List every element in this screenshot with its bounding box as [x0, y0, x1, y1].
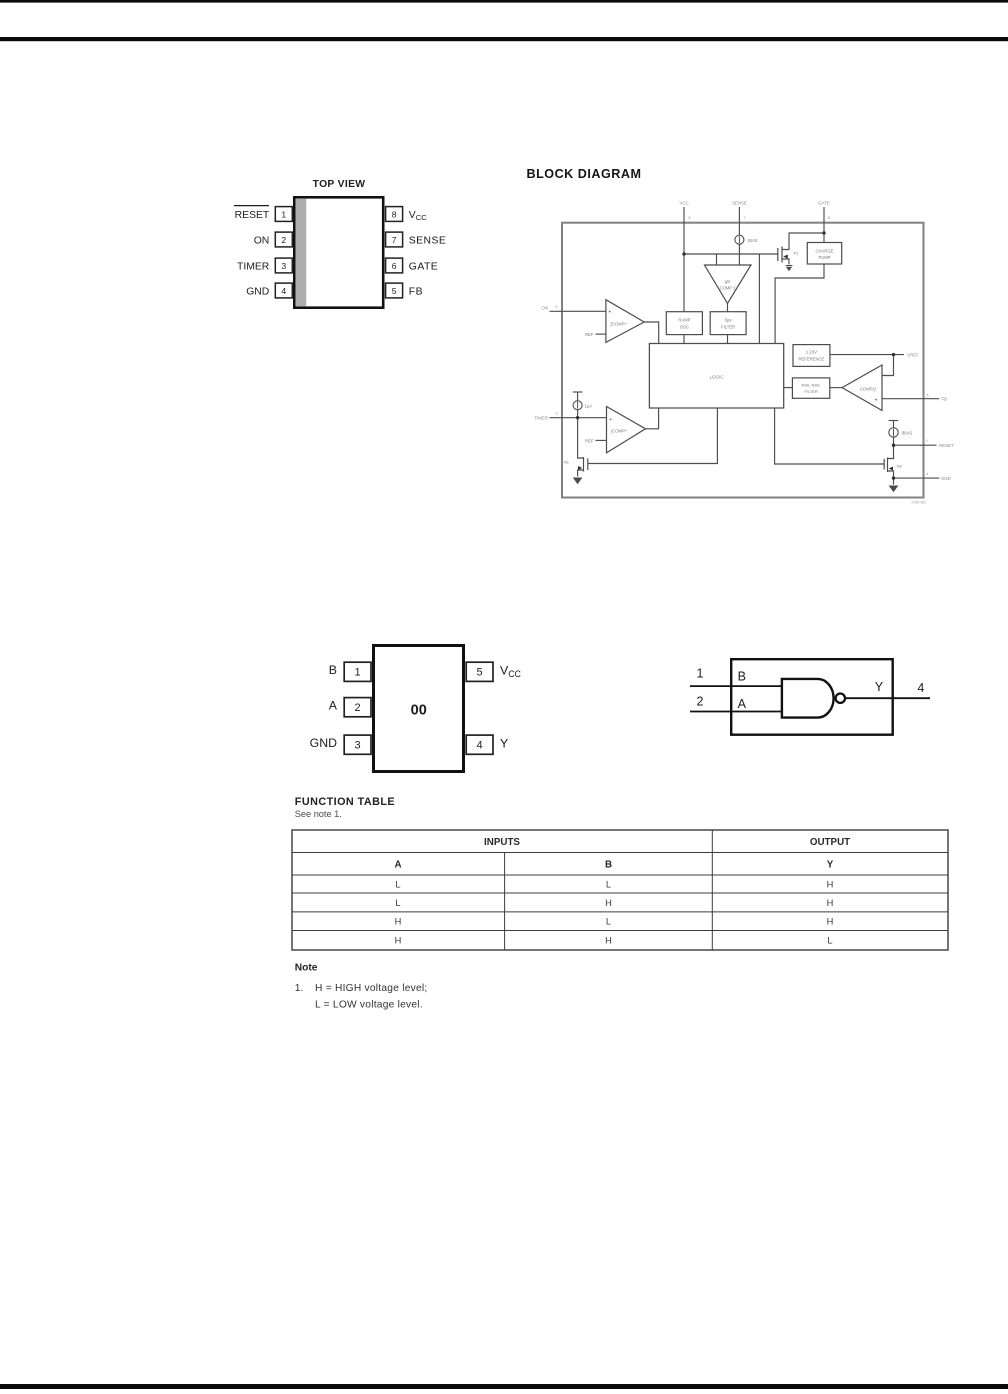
wire ref out [830, 354, 904, 356]
svg-text:CHARGE: CHARGE [816, 248, 834, 253]
op-amp COMPB (lower left) [607, 407, 646, 453]
wire comp2 left input [716, 254, 718, 265]
svg-text:OUTPUT: OUTPUT [810, 837, 850, 848]
pin 3 box [275, 258, 292, 273]
svg-text:2: 2 [697, 695, 704, 709]
junction node vref [892, 353, 895, 356]
input wire 2 [690, 711, 782, 713]
svg-text:V REF: V REF [907, 352, 919, 357]
svg-text:REF: REF [585, 438, 594, 443]
svg-text:5: 5 [927, 394, 929, 398]
svg-text:1μA: 1μA [585, 403, 593, 408]
svg-text:TIMER: TIMER [534, 416, 548, 421]
wire vref node down to compC [882, 355, 894, 376]
symbol boundary box [731, 659, 893, 735]
svg-text:1: 1 [355, 667, 361, 679]
wire filter to logic [727, 335, 729, 344]
outer boundary box [562, 223, 924, 498]
svg-text:N1: N1 [564, 460, 570, 465]
pin 3 box [344, 735, 371, 754]
op-amp COMPA (upper left) [606, 300, 644, 343]
svg-text:ON: ON [541, 306, 548, 311]
wire Q2 source [888, 471, 894, 485]
svg-text:REFERENCE: REFERENCE [798, 356, 824, 361]
pin VCC top wire [683, 207, 685, 312]
svg-text:P1: P1 [794, 251, 800, 256]
svg-text:ʃCOMP+: ʃCOMP+ [610, 322, 628, 327]
svg-text:H: H [827, 898, 834, 908]
svg-text:H: H [395, 936, 402, 946]
reference box [793, 345, 830, 367]
svg-text:6: 6 [392, 261, 397, 271]
top rule 1 [0, 0, 1008, 3]
pin GATE top wire [823, 207, 825, 243]
svg-text:GATE: GATE [409, 261, 438, 272]
svg-text:6: 6 [828, 216, 830, 220]
svg-text:H: H [605, 898, 612, 908]
svg-text:1.23V: 1.23V [806, 350, 817, 355]
wire cs3 to node [893, 437, 895, 445]
IC body U1 [294, 197, 383, 307]
svg-text:B: B [738, 669, 746, 683]
pin 4 box [275, 283, 292, 298]
svg-text:REF: REF [585, 332, 594, 337]
svg-text:GND: GND [310, 736, 337, 750]
junction node TIMER [576, 416, 579, 419]
wire ON pin input [550, 310, 606, 312]
filter box [710, 312, 746, 335]
svg-text:VСС: VСС [679, 201, 688, 206]
svg-text:IBIAS: IBIAS [902, 430, 913, 435]
wire Q2 drain [888, 445, 894, 458]
svg-text:PUMP: PUMP [818, 255, 830, 260]
pin 6 box [386, 258, 403, 273]
pin 2 box [275, 232, 292, 247]
wire Q1 gate from logic [588, 408, 718, 464]
svg-text:Y: Y [827, 860, 834, 871]
wire M1 source to ground [782, 259, 789, 265]
junction node GND [892, 476, 895, 479]
pin 5 box [466, 662, 493, 681]
svg-text:5μs: 5μs [725, 318, 732, 323]
table grid [292, 830, 948, 950]
svg-text:GND: GND [941, 476, 951, 481]
svg-text:3: 3 [556, 412, 558, 416]
pin-1 marker stripe [296, 199, 307, 307]
svg-text:L: L [827, 936, 832, 946]
svg-text:A: A [329, 699, 338, 713]
current source CS2 (1uA) [573, 401, 582, 410]
svg-text:2: 2 [281, 235, 286, 245]
svg-text:1769 BD: 1769 BD [911, 501, 926, 505]
svg-text:FILTER: FILTER [721, 324, 735, 329]
IC body U2 [374, 646, 464, 772]
wire M1 drain [782, 233, 824, 250]
svg-text:8: 8 [689, 216, 691, 220]
svg-text:FB: FB [409, 286, 423, 297]
svg-text:FILTER: FILTER [804, 389, 818, 394]
wire compC plus input / FB pin [882, 398, 939, 400]
svg-text:H = HIGH voltage level;: H = HIGH voltage level; [315, 983, 427, 994]
svg-text:H: H [605, 936, 612, 946]
pin 1 box [275, 207, 292, 222]
svg-text:8: 8 [392, 209, 397, 219]
wire Q1 source to ground [578, 470, 584, 477]
pin 8 box [386, 207, 403, 222]
wire rail to logic [758, 254, 760, 344]
svg-text:B: B [605, 860, 612, 871]
wire comp2 out to filter [727, 304, 729, 312]
pin SENSE top wire [738, 207, 740, 235]
wire cs2 cap [573, 391, 583, 393]
svg-text:gm: gm [725, 279, 731, 284]
charge pump box [807, 243, 841, 265]
svg-text:A: A [738, 697, 747, 711]
pin 1 box [344, 662, 371, 681]
svg-text:3: 3 [281, 261, 286, 271]
wire bias source to comp2 [738, 244, 740, 265]
svg-text:H: H [827, 917, 834, 927]
svg-text:1: 1 [697, 667, 704, 681]
svg-text:N2: N2 [897, 464, 903, 469]
gate rail wire [684, 253, 778, 255]
ground for M1 [786, 265, 793, 267]
pin 7 box [386, 232, 403, 247]
comparator COMP2 (down triangle) [705, 265, 752, 304]
wire REF to compA [596, 333, 606, 335]
wire OUT pin [894, 444, 937, 446]
svg-text:ʃCOMP+: ʃCOMP+ [610, 429, 628, 434]
wire ramp osc to logic [683, 335, 685, 344]
junction node OUT [892, 444, 895, 447]
svg-text:TOP VIEW: TOP VIEW [313, 179, 366, 190]
svg-text:+: + [609, 417, 612, 423]
svg-text:LOGIC: LOGIC [709, 375, 724, 380]
svg-text:+: + [608, 310, 611, 316]
svg-text:SENSE: SENSE [732, 201, 747, 206]
svg-text:TIMER: TIMER [237, 261, 270, 272]
svg-text:Note: Note [295, 962, 318, 973]
svg-text:1: 1 [926, 439, 928, 443]
junction node on GATE wire [822, 231, 825, 234]
pin 5 box [386, 283, 403, 298]
svg-text:4: 4 [477, 740, 483, 752]
svg-text:L: L [606, 879, 611, 889]
svg-text:1.: 1. [295, 983, 304, 994]
input wire 1 [690, 685, 782, 687]
transistor M1 (top P-MOSFET) [777, 248, 779, 261]
svg-text:7: 7 [392, 235, 397, 245]
rail filter box [792, 378, 829, 398]
wire REF to compB [596, 439, 607, 441]
svg-text:1: 1 [281, 209, 286, 219]
svg-text:L: L [606, 917, 611, 927]
svg-text:RAIL-RAIL: RAIL-RAIL [802, 382, 822, 387]
wire compC out [830, 387, 842, 389]
svg-text:4: 4 [281, 286, 286, 296]
svg-text:SENSE: SENSE [409, 235, 446, 246]
transistor Q1 (left N-MOSFET) [583, 457, 585, 472]
svg-text:FUNCTION TABLE: FUNCTION TABLE [295, 796, 395, 808]
svg-text:Y: Y [875, 680, 884, 694]
wire cs3 cap [889, 420, 899, 422]
wire cs2 to node [577, 410, 579, 418]
wire cs2 stem [577, 392, 579, 401]
wire logic to rail filter [784, 387, 793, 389]
ground for Q2 [889, 486, 899, 493]
svg-text:4: 4 [926, 472, 928, 476]
wire compA out to logic [644, 322, 659, 344]
wire TIMER pin input [550, 417, 607, 419]
bottom rule [0, 1384, 1008, 1389]
top rule 2 [0, 37, 1008, 41]
comparator COMPC (left-pointing) [842, 365, 882, 411]
svg-text:RESET: RESET [939, 443, 954, 448]
svg-text:5: 5 [392, 286, 397, 296]
svg-text:B: B [329, 663, 337, 677]
svg-text:ON: ON [254, 235, 270, 246]
svg-text:+: + [875, 398, 878, 404]
svg-text:RAMP: RAMP [678, 318, 690, 323]
ground for Q1 [573, 478, 583, 485]
svg-text:GATE: GATE [818, 201, 830, 206]
svg-text:INPUTS: INPUTS [484, 837, 520, 848]
NAND gate body [782, 679, 834, 718]
svg-text:FB: FB [942, 397, 948, 402]
svg-text:L: L [395, 898, 400, 908]
svg-text:H: H [827, 879, 834, 889]
logic box [649, 344, 783, 409]
svg-text:4: 4 [917, 681, 924, 695]
junction node on VCC wire [682, 252, 685, 255]
svg-text:3: 3 [355, 740, 361, 752]
svg-text:7: 7 [744, 216, 746, 220]
svg-text:RESET: RESET [235, 210, 270, 221]
current source CS1 (bias) [735, 235, 744, 244]
svg-text:00: 00 [411, 703, 427, 719]
transistor Q2 (right N-MOSFET) [883, 459, 885, 470]
wire GND pin [894, 477, 940, 479]
svg-text:H: H [395, 917, 402, 927]
svg-text:A: A [394, 860, 401, 871]
svg-text:2: 2 [355, 702, 361, 714]
svg-text:COMP 2: COMP 2 [720, 286, 737, 291]
wire charge pump to logic [775, 264, 824, 344]
svg-text:5: 5 [477, 667, 483, 679]
svg-text:See note 1.: See note 1. [295, 809, 342, 819]
svg-text:OSC: OSC [680, 324, 689, 329]
svg-text:BIAS: BIAS [748, 238, 758, 243]
svg-text:BLOCK DIAGRAM: BLOCK DIAGRAM [527, 167, 642, 181]
svg-text:2: 2 [556, 305, 558, 309]
svg-text:Y: Y [500, 737, 508, 751]
wire Q1 drain [578, 418, 584, 458]
svg-text:GND: GND [246, 286, 269, 297]
wire cs3 stem [893, 421, 895, 428]
ramp osc box [666, 312, 702, 335]
wire logic to Q2 gate [775, 408, 885, 464]
wire compB out to logic [646, 408, 659, 429]
svg-text:L: L [395, 879, 400, 889]
inverter bubble [836, 694, 845, 703]
pin 2 box [344, 698, 371, 717]
pin 4 box [466, 735, 493, 754]
svg-text:L = LOW voltage level.: L = LOW voltage level. [315, 1000, 423, 1011]
current source CS3 (Ibias) [889, 428, 898, 437]
svg-text:COMP1ʃ: COMP1ʃ [860, 387, 877, 392]
output wire [845, 697, 930, 699]
